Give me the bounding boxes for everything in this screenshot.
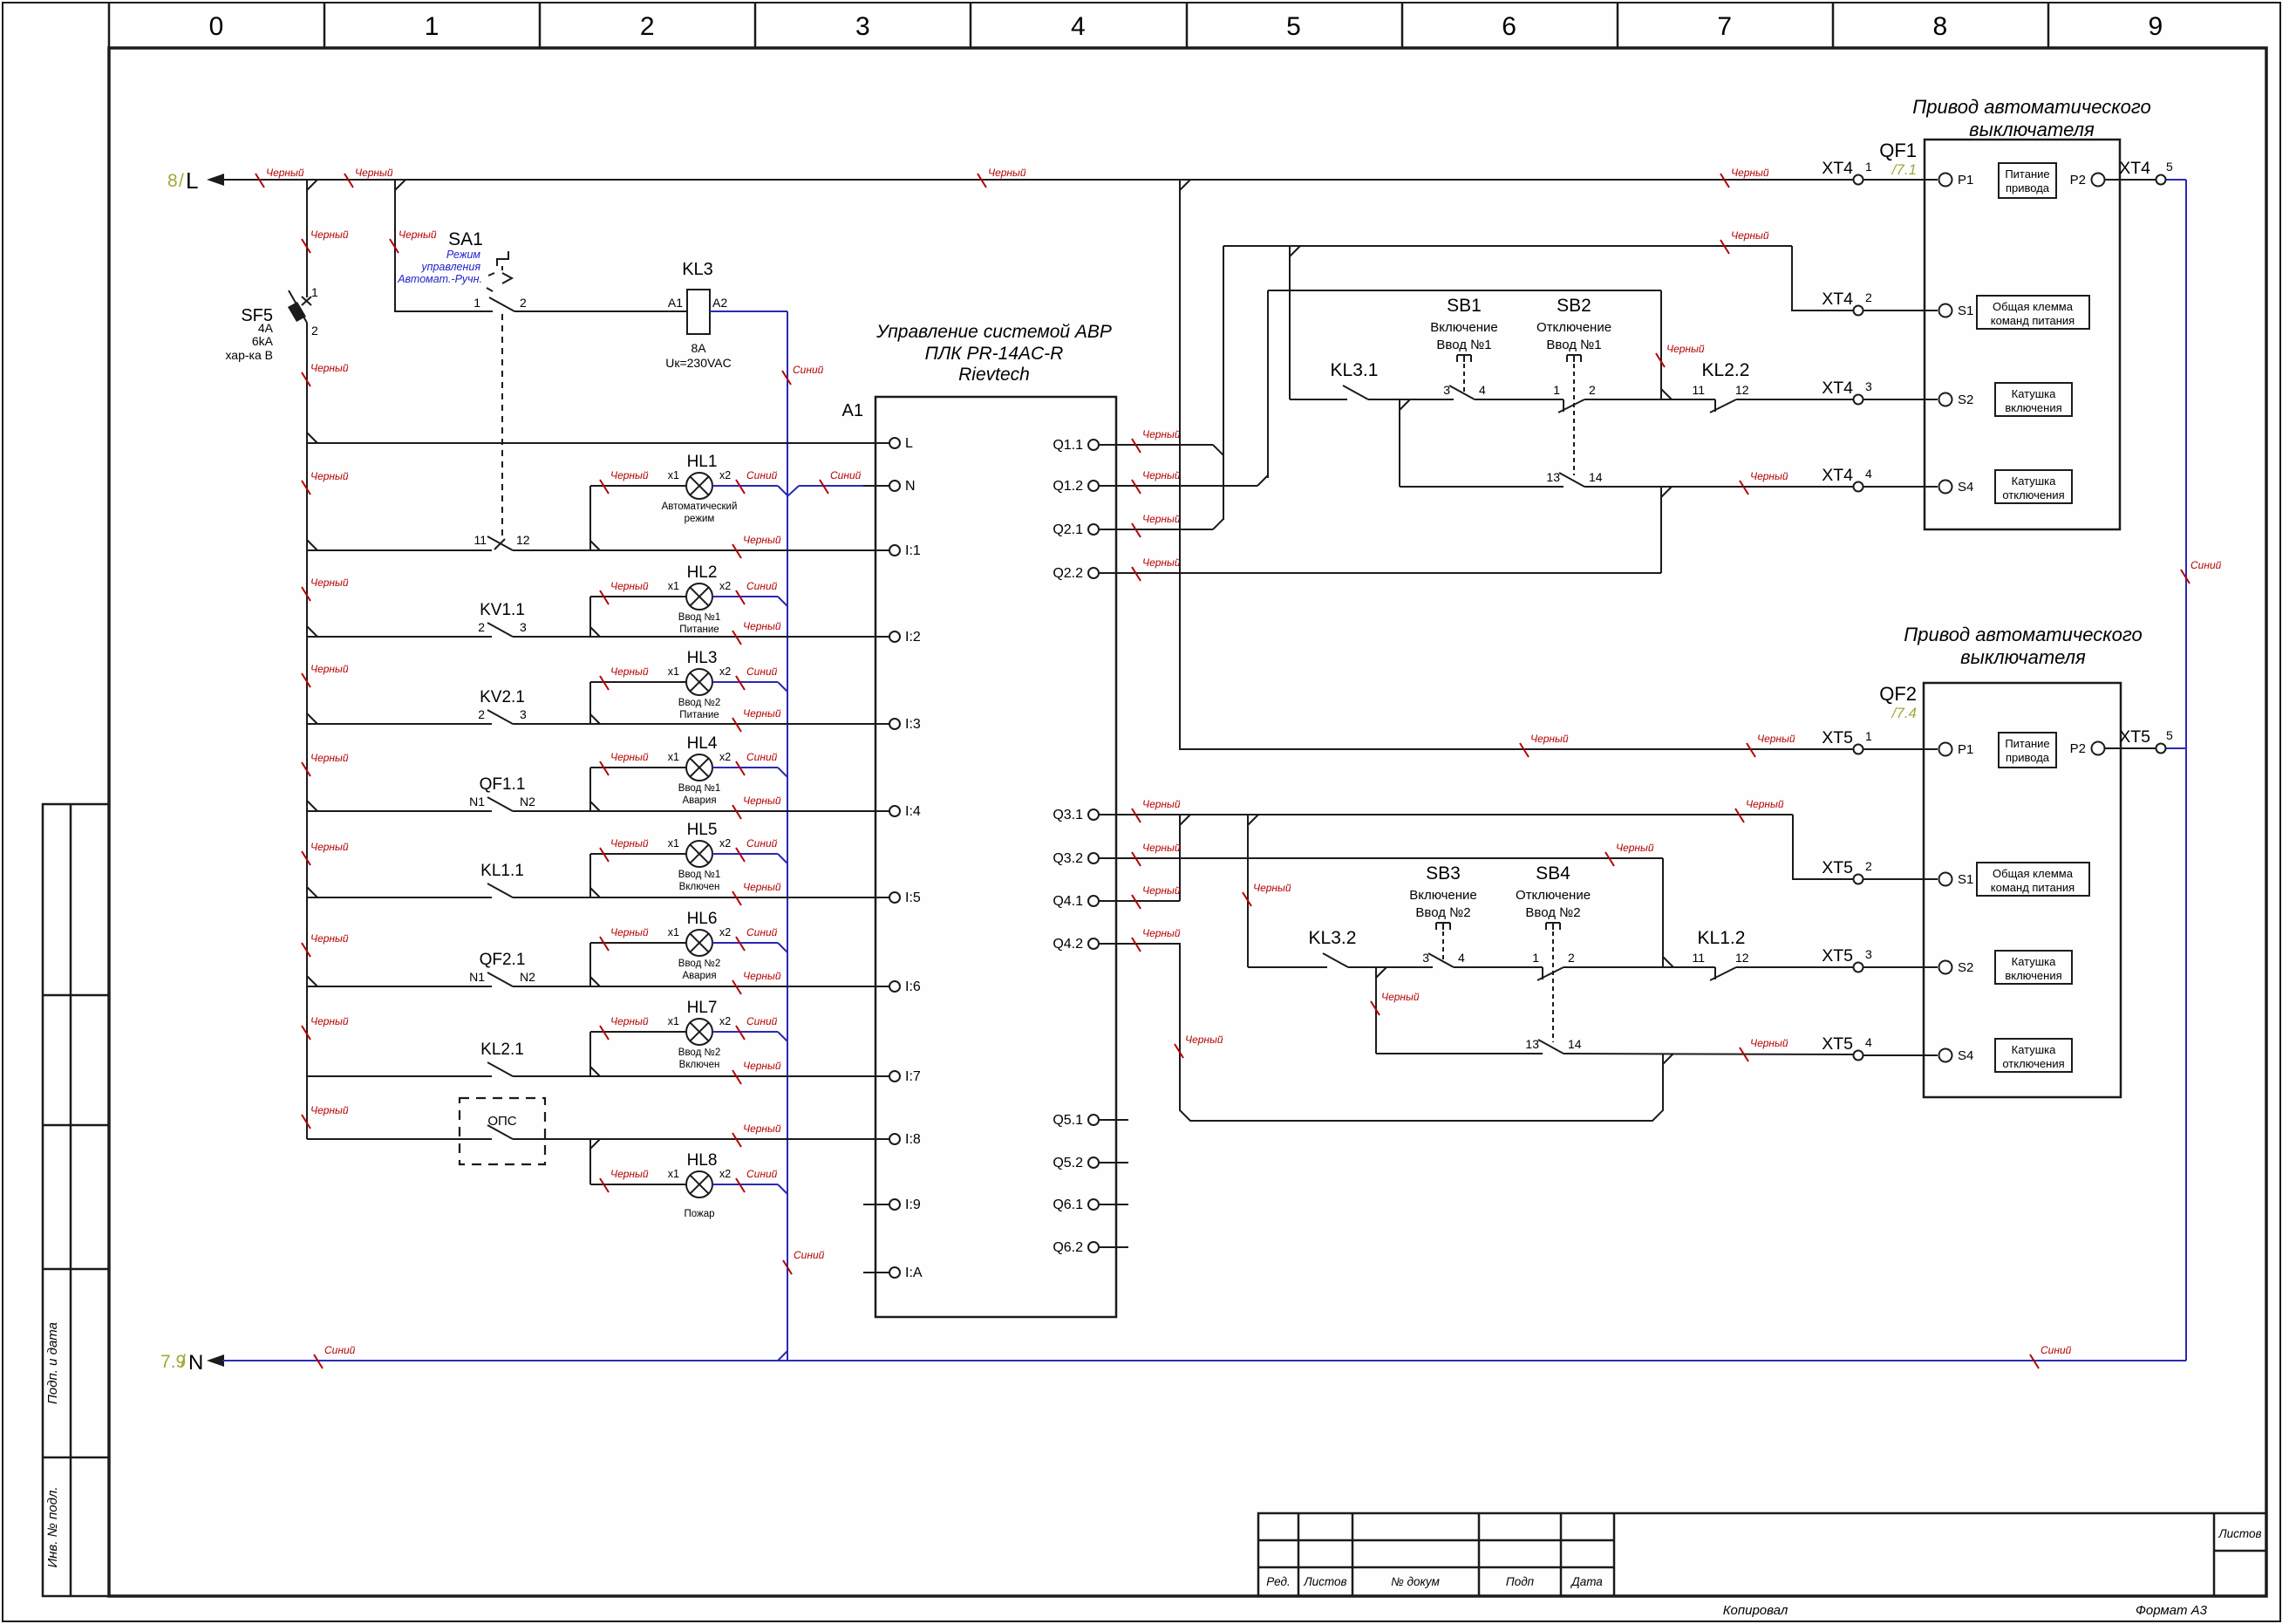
svg-text:режим: режим bbox=[685, 514, 715, 524]
svg-text:Питание: Питание bbox=[679, 710, 719, 720]
svg-text:14: 14 bbox=[1568, 1037, 1582, 1051]
svg-text:11: 11 bbox=[1692, 383, 1705, 397]
svg-text:Черный: Черный bbox=[743, 707, 781, 720]
svg-text:Черный: Черный bbox=[310, 1104, 349, 1116]
wire QF2 P2 to XT5-5 bbox=[2105, 747, 2156, 749]
svg-text:Отключение: Отключение bbox=[1516, 888, 1591, 903]
wire XT4-1 to QF1 P1 bbox=[1863, 179, 1938, 181]
svg-text:x1: x1 bbox=[668, 580, 679, 592]
wire label Черный near A1 bbox=[732, 534, 781, 558]
svg-text:KL3.1: KL3.1 bbox=[1331, 360, 1379, 380]
svg-text:№ докум: № докум bbox=[1391, 1575, 1440, 1588]
wire label Черный bbox=[302, 229, 349, 253]
svg-text:Черный: Черный bbox=[1142, 428, 1181, 440]
wire label Черный on left bus bbox=[302, 663, 349, 687]
svg-text:отключения: отключения bbox=[2002, 488, 2064, 502]
svg-text:x2: x2 bbox=[719, 580, 731, 592]
svg-text:Черный: Черный bbox=[1530, 733, 1569, 745]
wire label Черный at lamp bbox=[600, 665, 649, 690]
svg-text:Ввод №2: Ввод №2 bbox=[678, 1047, 720, 1058]
wire label Черный near A1 bbox=[732, 881, 781, 905]
svg-text:Включен: Включен bbox=[679, 1060, 720, 1070]
junction chamfer on left bus bbox=[307, 713, 317, 724]
function box Общая клемма команд питания bbox=[1977, 296, 2089, 329]
svg-text:8: 8 bbox=[167, 171, 178, 191]
svg-text:4: 4 bbox=[1865, 1035, 1872, 1049]
svg-text:x2: x2 bbox=[719, 469, 731, 481]
svg-text:Черный: Черный bbox=[399, 229, 437, 241]
wire input row HL8 bbox=[307, 1138, 492, 1140]
wire lamp branch HL6 bbox=[589, 943, 591, 986]
wire KL2.2 to XT4-3 bbox=[1736, 399, 1853, 400]
svg-text:Черный: Черный bbox=[610, 1168, 649, 1180]
svg-text:Черный: Черный bbox=[1381, 991, 1420, 1003]
svg-text:Черный: Черный bbox=[1750, 1037, 1788, 1049]
wire vertical x=1454 bbox=[1267, 290, 1269, 478]
wire label Черный P1 row bbox=[1520, 733, 1569, 757]
wire vertical x=1403 (Q1.1+Q2.1 to S1 line) bbox=[1223, 246, 1224, 520]
svg-text:Черный: Черный bbox=[310, 752, 349, 764]
svg-text:x1: x1 bbox=[668, 1168, 679, 1180]
wire jog to XT5-2 bbox=[1793, 815, 1853, 879]
wire label Черный near A1 bbox=[732, 707, 781, 732]
svg-text:Общая клемма: Общая клемма bbox=[1993, 867, 2074, 880]
wire blue N bus vertical bbox=[787, 311, 788, 1361]
junction chamfer on left bus bbox=[307, 801, 317, 811]
svg-text:S4: S4 bbox=[1958, 1048, 1973, 1063]
wire label Синий on riser bbox=[2181, 559, 2222, 583]
svg-text:Черный: Черный bbox=[610, 580, 649, 592]
wire lamp HL2 to blue bus bbox=[712, 596, 778, 597]
svg-text:Синий: Синий bbox=[746, 837, 778, 850]
svg-text:Ввод №1: Ввод №1 bbox=[1546, 338, 1601, 352]
mechanical link dashed SA1 bbox=[501, 314, 503, 537]
terminal XT4 pin 1 bbox=[1854, 175, 1863, 185]
svg-text:выключателя: выключателя bbox=[1969, 119, 2095, 140]
wire net Q3.2 bbox=[1128, 857, 1663, 859]
svg-text:4: 4 bbox=[1865, 467, 1872, 481]
function box Питание привода bbox=[1999, 163, 2056, 198]
pin I:6 of A1 bbox=[863, 986, 889, 987]
svg-text:Ввод №2: Ввод №2 bbox=[1525, 905, 1580, 920]
svg-text:KL1.2: KL1.2 bbox=[1698, 928, 1746, 948]
wire label Черный near A1 bbox=[732, 795, 781, 819]
svg-text:привода: привода bbox=[2006, 751, 2050, 764]
pin P2 of QF1 bbox=[2092, 174, 2105, 187]
pin S2 of QF1 bbox=[1939, 393, 1952, 406]
pin Q1.1 of A1 bbox=[1099, 444, 1128, 446]
svg-text:KL3: KL3 bbox=[682, 260, 713, 279]
wire KL3.2 to SB3 bbox=[1348, 966, 1433, 968]
pin Q1.2 of A1 bbox=[1099, 485, 1128, 487]
wire label Черный Q4.2 bbox=[1132, 927, 1181, 952]
svg-text:1: 1 bbox=[1865, 160, 1872, 174]
wire label Черный S1 line bbox=[1735, 798, 1784, 822]
svg-text:Черный: Черный bbox=[310, 470, 349, 482]
svg-text:Инв. № подл.: Инв. № подл. bbox=[45, 1486, 60, 1567]
wire label Черный at lamp bbox=[600, 469, 649, 494]
junction chamfer on left bus bbox=[307, 626, 317, 637]
terminal XT4 pin 4 bbox=[1854, 482, 1863, 492]
svg-text:Черный: Черный bbox=[610, 926, 649, 938]
lamp HL6 bbox=[686, 930, 712, 956]
svg-text:N2: N2 bbox=[520, 795, 535, 809]
svg-text:Черный: Черный bbox=[743, 1060, 781, 1072]
wire label Черный near A1 bbox=[732, 1122, 781, 1147]
svg-text:A2: A2 bbox=[712, 296, 727, 310]
svg-text:Черный: Черный bbox=[610, 837, 649, 850]
wire lamp branch HL5 bbox=[589, 854, 591, 897]
svg-text:/: / bbox=[179, 171, 184, 191]
svg-text:x2: x2 bbox=[719, 665, 731, 678]
svg-text:Q4.2: Q4.2 bbox=[1053, 937, 1083, 952]
wire XT5-1 to QF2 P1 bbox=[1863, 748, 1938, 750]
svg-text:HL1: HL1 bbox=[687, 453, 718, 471]
svg-text:Ввод №1: Ввод №1 bbox=[678, 783, 720, 794]
svg-text:N1: N1 bbox=[469, 970, 485, 984]
lamp HL7 bbox=[686, 1019, 712, 1045]
wire lamp HL1 to blue bus bbox=[712, 485, 778, 487]
circuit breaker SF5 bbox=[288, 290, 311, 323]
wire jog to XT4-2 bbox=[1792, 246, 1853, 310]
lamp HL5 bbox=[686, 841, 712, 867]
wire input row HL1 bbox=[307, 549, 492, 551]
wire net Q1.2 bbox=[1128, 485, 1257, 487]
wire drop to 13-14 row bbox=[1375, 967, 1377, 1054]
svg-text:/7.4: /7.4 bbox=[1891, 705, 1917, 721]
svg-text:Черный: Черный bbox=[310, 577, 349, 589]
node N (7.9/N sheet reference arrow) bbox=[207, 1354, 224, 1367]
svg-text:/7.1: /7.1 bbox=[1891, 161, 1917, 178]
svg-text:S4: S4 bbox=[1958, 480, 1973, 495]
svg-text:Черный: Черный bbox=[743, 620, 781, 632]
svg-text:SB3: SB3 bbox=[1426, 863, 1461, 884]
pin I:2 of A1 bbox=[863, 636, 889, 638]
svg-text:Синий: Синий bbox=[793, 364, 824, 376]
svg-text:Синий: Синий bbox=[746, 926, 778, 938]
pin I:3 of A1 bbox=[863, 723, 889, 725]
svg-text:Ввод №1: Ввод №1 bbox=[1436, 338, 1491, 352]
svg-text:Черный: Черный bbox=[743, 795, 781, 807]
svg-text:Синий: Синий bbox=[2041, 1344, 2072, 1356]
pin Q4.2 of A1 bbox=[1099, 943, 1128, 945]
wire label Черный P1 row bbox=[1747, 733, 1795, 757]
svg-text:1: 1 bbox=[1532, 951, 1539, 965]
svg-text:5: 5 bbox=[2166, 728, 2173, 742]
wire L bus drop to QF2 P1 (vertical x=1353) bbox=[1180, 180, 1853, 749]
wire label Черный on L bus bbox=[344, 167, 393, 188]
svg-text:2: 2 bbox=[1865, 859, 1872, 873]
svg-text:I:2: I:2 bbox=[905, 630, 921, 645]
wire lamp branch HL3 bbox=[589, 682, 591, 724]
svg-text:Управление системой АВР: Управление системой АВР bbox=[875, 322, 1112, 342]
svg-text:Q3.1: Q3.1 bbox=[1053, 808, 1083, 822]
pin L of A1 bbox=[863, 442, 889, 444]
svg-text:Катушка: Катушка bbox=[2012, 474, 2057, 488]
wire label Синий at lamp bbox=[736, 926, 778, 951]
svg-text:Черный: Черный bbox=[1731, 167, 1769, 179]
svg-text:1: 1 bbox=[311, 285, 318, 299]
wire net Q2.2 bbox=[1128, 572, 1661, 574]
svg-text:XT5: XT5 bbox=[1822, 728, 1853, 747]
svg-text:Черный: Черный bbox=[610, 1015, 649, 1027]
wire net Q3.1 (S1 common) bbox=[1128, 814, 1793, 815]
pin S2 of QF2 bbox=[1939, 961, 1952, 974]
mechanical link dashed SB4 bbox=[1552, 931, 1554, 1042]
wire label Черный on left bus bbox=[302, 470, 349, 495]
wire vertical x=1431 to KL3.2 row bbox=[1247, 815, 1249, 967]
wire label Синий on N bus bbox=[2030, 1344, 2072, 1368]
wire vertical x=1907 top bbox=[1662, 858, 1664, 967]
pin Q4.1 of A1 bbox=[1099, 900, 1128, 902]
svg-text:Ред.: Ред. bbox=[1266, 1575, 1290, 1588]
svg-text:1: 1 bbox=[425, 12, 439, 41]
lamp HL3 bbox=[686, 669, 712, 695]
wire branch to KL3.1 row bbox=[1289, 246, 1291, 399]
node L (8/L sheet reference arrow) bbox=[207, 174, 224, 186]
svg-text:Включение: Включение bbox=[1409, 888, 1477, 903]
wire KL3 A2 to N blue bus bbox=[710, 310, 787, 312]
svg-text:Катушка: Катушка bbox=[2012, 1043, 2057, 1056]
svg-text:Синий: Синий bbox=[746, 665, 778, 678]
wire label Черный near A1 bbox=[732, 1060, 781, 1084]
svg-text:13: 13 bbox=[1546, 470, 1560, 484]
svg-text:I:5: I:5 bbox=[905, 890, 921, 905]
svg-text:Черный: Черный bbox=[310, 841, 349, 853]
svg-text:x2: x2 bbox=[719, 1168, 731, 1180]
wire bypass line y=333 bbox=[1268, 290, 1661, 291]
svg-text:XT4: XT4 bbox=[1822, 290, 1853, 309]
svg-text:Автоматический: Автоматический bbox=[662, 502, 738, 512]
svg-text:N1: N1 bbox=[469, 795, 485, 809]
svg-text:Авария: Авария bbox=[682, 971, 716, 981]
wire label Синий at lamp bbox=[736, 1015, 778, 1040]
pin P1 of QF2 bbox=[1939, 743, 1952, 756]
pin P2 of QF2 bbox=[2092, 742, 2105, 755]
wire XT4-4 to QF1 S4 bbox=[1863, 486, 1938, 488]
svg-text:Черный: Черный bbox=[1142, 884, 1181, 897]
svg-text:9: 9 bbox=[2149, 12, 2163, 41]
wire label Черный at lamp bbox=[600, 580, 649, 604]
pin Q2.1 of A1 bbox=[1099, 529, 1128, 530]
pin Q3.2 of A1 bbox=[1099, 857, 1128, 859]
svg-text:Питание: Питание bbox=[679, 624, 719, 635]
svg-text:QF1: QF1 bbox=[1879, 140, 1917, 161]
wire N bus horizontal bbox=[222, 1360, 2186, 1361]
wire 13-14 row y=1208 bbox=[1376, 1053, 1543, 1054]
svg-text:привода: привода bbox=[2006, 181, 2050, 194]
pin Q5.1 of A1 bbox=[1099, 1119, 1128, 1121]
svg-text:Черный: Черный bbox=[1185, 1034, 1223, 1046]
lamp HL8 bbox=[686, 1171, 712, 1198]
terminal XT5 pin 2 bbox=[1854, 875, 1863, 884]
svg-text:KL1.1: KL1.1 bbox=[480, 862, 524, 880]
wire lamp branch HL8 bbox=[589, 1139, 591, 1184]
svg-text:1: 1 bbox=[474, 296, 480, 310]
wire label Синий on blue bus bbox=[782, 364, 824, 385]
wire 13-14 to XT4-4 bbox=[1584, 486, 1853, 488]
wire label Синий at lamp bbox=[736, 665, 778, 690]
svg-text:Черный: Черный bbox=[1142, 513, 1181, 525]
wire net Q4.2 (routed under) bbox=[1128, 944, 1663, 1121]
wire label Черный at lamp bbox=[600, 1015, 649, 1040]
wire label Синий at lamp bbox=[736, 751, 778, 775]
wire label Черный on L bus bbox=[1720, 167, 1769, 188]
svg-text:3: 3 bbox=[520, 620, 527, 634]
svg-text:команд питания: команд питания bbox=[1991, 881, 2075, 894]
pin I:8 of A1 bbox=[863, 1138, 889, 1140]
svg-text:Катушка: Катушка bbox=[2012, 387, 2057, 400]
svg-text:HL5: HL5 bbox=[687, 821, 718, 839]
wire lamp HL5 to blue bus bbox=[712, 853, 778, 855]
function box Катушка включения QF2 bbox=[1995, 951, 2072, 984]
wire label Черный at lamp bbox=[600, 751, 649, 775]
svg-text:3: 3 bbox=[1443, 383, 1450, 397]
svg-text:I:9: I:9 bbox=[905, 1198, 921, 1212]
svg-text:XT4: XT4 bbox=[2119, 159, 2150, 178]
svg-text:3: 3 bbox=[1422, 951, 1429, 965]
svg-text:Черный: Черный bbox=[1142, 927, 1181, 939]
svg-text:Пожар: Пожар bbox=[684, 1209, 714, 1219]
svg-text:включения: включения bbox=[2005, 401, 2061, 414]
svg-text:I:A: I:A bbox=[905, 1266, 923, 1280]
svg-text:Копировал: Копировал bbox=[1723, 1603, 1788, 1618]
svg-text:N: N bbox=[188, 1351, 203, 1375]
wire drop from L bus to SA1 bbox=[395, 180, 493, 311]
svg-text:I:1: I:1 bbox=[905, 543, 921, 558]
svg-text:P1: P1 bbox=[1958, 173, 1973, 188]
terminal XT4 pin 3 bbox=[1854, 395, 1863, 405]
wire lamp branch HL2 bbox=[589, 597, 591, 637]
wire label Синий at lamp bbox=[736, 580, 778, 604]
svg-text:12: 12 bbox=[1735, 383, 1749, 397]
wire SB4 to KL1.2 bbox=[1564, 966, 1715, 968]
wire label Черный Q2.2 bbox=[1132, 556, 1181, 581]
pin I:A of A1 bbox=[863, 1272, 889, 1273]
wire 13-14 to XT5-4 bbox=[1564, 1054, 1853, 1054]
svg-text:11: 11 bbox=[1692, 951, 1705, 965]
pin Q3.1 of A1 bbox=[1099, 814, 1128, 815]
wire left bus (SF5 output) bbox=[306, 323, 308, 1139]
wire KL3.2 row y=1109 bbox=[1248, 966, 1327, 968]
svg-text:Синий: Синий bbox=[324, 1344, 356, 1356]
pin P1 of QF1 bbox=[1939, 174, 1952, 187]
svg-text:HL2: HL2 bbox=[687, 563, 718, 582]
wire label Черный S4 row bbox=[1740, 1037, 1788, 1061]
wire KL3.1 to SB1 bbox=[1368, 399, 1454, 400]
svg-text:x1: x1 bbox=[668, 751, 679, 763]
wire label Черный at lamp bbox=[600, 837, 649, 862]
svg-text:Привод автоматического: Привод автоматического bbox=[1912, 96, 2150, 118]
svg-text:Черный: Черный bbox=[1142, 469, 1181, 481]
junction chamfer on left bus bbox=[307, 887, 317, 897]
svg-text:Rievtech: Rievtech bbox=[958, 365, 1030, 385]
svg-text:KL2.1: KL2.1 bbox=[480, 1041, 524, 1059]
svg-text:6: 6 bbox=[1502, 12, 1516, 41]
svg-text:QF1.1: QF1.1 bbox=[480, 775, 526, 794]
wire Q3.1/Q4.1 link vertical x=1353 bbox=[1179, 815, 1181, 901]
wire label Синий at lamp bbox=[736, 1168, 778, 1192]
wire label Черный Q1.2 bbox=[1132, 469, 1181, 494]
wire lamp HL8 to blue bus bbox=[712, 1184, 778, 1185]
svg-text:/: / bbox=[181, 1352, 186, 1372]
PLC A1 (ПЛК PR-14AC-R Rievtech) bbox=[875, 397, 1116, 1317]
wire label Черный bbox=[390, 229, 437, 253]
wire label Черный at lamp bbox=[600, 926, 649, 951]
svg-text:14: 14 bbox=[1589, 470, 1603, 484]
svg-text:Q5.1: Q5.1 bbox=[1053, 1113, 1083, 1128]
svg-text:Черный: Черный bbox=[743, 881, 781, 893]
svg-text:Q2.2: Q2.2 bbox=[1053, 566, 1083, 581]
wire label Черный on vertical bbox=[1371, 991, 1420, 1015]
svg-text:0: 0 bbox=[209, 12, 224, 41]
wire XT4-3 to QF1 S2 bbox=[1863, 399, 1938, 400]
svg-text:Черный: Черный bbox=[1253, 882, 1291, 894]
wire label Черный S1 line bbox=[1720, 229, 1769, 254]
svg-text:2: 2 bbox=[520, 296, 527, 310]
svg-text:Черный: Черный bbox=[610, 751, 649, 763]
function box Питание привода QF2 bbox=[1999, 733, 2056, 768]
contact ОПС (fire alarm, dashed box) bbox=[460, 1098, 545, 1164]
svg-text:Черный: Черный bbox=[743, 534, 781, 546]
svg-text:N: N bbox=[905, 479, 916, 494]
wire row L input (left bus to A1 pin L) bbox=[307, 442, 863, 444]
lamp HL1 bbox=[686, 473, 712, 499]
function box Катушка включения bbox=[1995, 383, 2072, 416]
pin Q6.1 of A1 bbox=[1099, 1204, 1128, 1205]
svg-text:6kA: 6kA bbox=[252, 334, 274, 348]
svg-text:Черный: Черный bbox=[743, 970, 781, 982]
svg-text:I:3: I:3 bbox=[905, 717, 921, 732]
svg-text:5: 5 bbox=[1286, 12, 1301, 41]
svg-text:включения: включения bbox=[2005, 969, 2061, 982]
svg-text:Автомат.-Ручн.: Автомат.-Ручн. bbox=[397, 273, 482, 285]
wire label Черный on L bus bbox=[978, 167, 1026, 188]
wire label Черный on left bus bbox=[302, 577, 349, 601]
svg-text:XT5: XT5 bbox=[1822, 1034, 1853, 1054]
svg-text:Черный: Черный bbox=[1746, 798, 1784, 810]
svg-text:I:8: I:8 bbox=[905, 1132, 921, 1147]
wire label Синий at lamp bbox=[736, 837, 778, 862]
svg-text:XT4: XT4 bbox=[1822, 466, 1853, 485]
svg-text:Ввод №2: Ввод №2 bbox=[678, 959, 720, 969]
wire L bus bbox=[222, 179, 1828, 181]
relay coil KL3 bbox=[687, 290, 710, 334]
pin Q2.2 of A1 bbox=[1099, 572, 1128, 574]
svg-text:Черный: Черный bbox=[743, 1122, 781, 1135]
wire vertical x=1905 bottom (Q2.2) bbox=[1660, 487, 1662, 573]
svg-text:x2: x2 bbox=[719, 926, 731, 938]
wire label Черный on vertical bbox=[1175, 1034, 1223, 1058]
svg-text:P2: P2 bbox=[2070, 741, 2086, 756]
wire XT4-2 to QF1 S1 bbox=[1863, 310, 1938, 311]
svg-text:x1: x1 bbox=[668, 926, 679, 938]
svg-text:Синий: Синий bbox=[746, 469, 778, 481]
pin I:4 of A1 bbox=[863, 810, 889, 812]
function box Катушка отключения QF2 bbox=[1995, 1039, 2072, 1072]
svg-text:KL3.2: KL3.2 bbox=[1309, 928, 1357, 948]
svg-text:Авария: Авария bbox=[682, 795, 716, 806]
svg-text:x1: x1 bbox=[668, 837, 679, 850]
svg-text:P2: P2 bbox=[2070, 173, 2086, 188]
svg-text:I:6: I:6 bbox=[905, 979, 921, 994]
wire input row HL2 bbox=[307, 636, 492, 638]
svg-text:Черный: Черный bbox=[1616, 842, 1654, 854]
wire row N input (blue bus to A1 pin N) bbox=[787, 486, 799, 496]
svg-text:команд питания: команд питания bbox=[1991, 314, 2075, 327]
wire label Черный on vertical bbox=[1656, 343, 1705, 367]
svg-text:Ввод №1: Ввод №1 bbox=[678, 870, 720, 880]
